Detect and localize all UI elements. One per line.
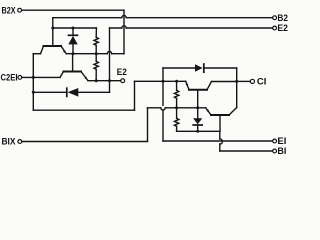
diode D4 cathode lead (197, 125, 199, 131)
diode D2 cathode bar (69, 34, 78, 36)
diode D4 anode lead (197, 108, 199, 118)
svg-text:B2: B2 (277, 13, 288, 23)
node junction resistor R2 on emitter rail (95, 79, 98, 82)
diode D4 triangle (193, 118, 202, 124)
resistor R3 zigzag (174, 90, 178, 98)
resistor R2 top lead (95, 54, 97, 62)
transistor Q4 emitter leg (206, 108, 211, 115)
wire hop of B1 riser over E1 wire (220, 139, 223, 144)
wire B2X vertical drop to base line (123, 10, 125, 54)
wire C1 riser down (236, 68, 238, 108)
svg-text:C2EI: C2EI (1, 73, 18, 83)
diode D3 FWD cathode lead (204, 67, 237, 69)
node junction base line B (51, 27, 54, 30)
diode D3 FWD triangle (195, 64, 203, 72)
wire hop of B1X line under E1 riser (161, 108, 165, 110)
diode D1 FWD anode lead (78, 91, 109, 93)
transistor Q2 emitter leg (81, 72, 88, 81)
node junction E1 rail and FWD riser (162, 80, 165, 83)
terminal C1 (250, 79, 254, 83)
wire B2 line A (53, 17, 273, 19)
transistor Q3 base bar (189, 89, 207, 91)
terminal B1X (18, 140, 22, 144)
node junction diode D2 anode on B2X line (72, 52, 75, 55)
wire hop of E2 line over B2X vertical (122, 26, 126, 28)
wire FWD anode riser (162, 68, 164, 141)
resistor R1 top lead (95, 28, 97, 37)
terminal E2 mid (121, 79, 125, 83)
svg-text:B2X: B2X (2, 5, 16, 15)
resistor R4 top lead (176, 108, 178, 119)
resistor R4 zigzag (174, 118, 178, 126)
wire B1 horizontal (220, 150, 273, 152)
wire B1 riser down with hop over E1 wire (219, 131, 221, 151)
transistor Q3 collector leg (207, 82, 212, 90)
transistor Q4 base bar (211, 114, 229, 116)
diode D4 cathode bar (193, 124, 202, 126)
wire B1 line (177, 130, 220, 132)
transistor Q3 emitter arrow (186, 82, 188, 85)
wire E1 horizontal (163, 140, 273, 142)
wire C2E1 riser vertical (32, 54, 34, 110)
resistor R2 zigzag (94, 61, 98, 69)
resistor R1 bottom lead (95, 45, 97, 53)
transistor Q1 collector leg (41, 46, 44, 54)
wire B1X line (148, 107, 206, 109)
svg-text:BI: BI (277, 146, 286, 156)
transistor Q3 base lead down (197, 90, 199, 108)
transistor Q2 emitter arrow (85, 77, 88, 80)
node junction C2E1 on riser (32, 76, 35, 79)
wire C1 horizontal (237, 80, 251, 82)
svg-text:BIX: BIX (2, 137, 16, 147)
diode D1 FWD triangle (68, 88, 79, 97)
wire base line B2X left run (66, 53, 124, 55)
wire emitter rail E1 top (135, 80, 186, 82)
terminal B2X (18, 8, 22, 12)
svg-text:E2: E2 (277, 23, 288, 33)
terminal B2 (273, 16, 277, 20)
wire B2X horizontal (22, 9, 124, 11)
wire E2 line right segment (110, 27, 273, 29)
svg-text:E2: E2 (117, 67, 127, 77)
transistor Q1 emitter arrow (63, 50, 66, 53)
wire hop of B2 line over B2X vertical (122, 16, 126, 18)
wire bottom link C2E1 to right group (33, 109, 134, 111)
wire Q3 collector to C1 riser (212, 81, 237, 83)
diode D1 FWD cathode bar (66, 88, 68, 96)
node junction E1 rail and resistor chain (175, 80, 178, 83)
node junction diode D2 on line B (72, 27, 75, 30)
wire E2 aux line B segment (53, 27, 97, 29)
node junction FWD cathode on riser (32, 91, 35, 94)
node junction D4 cathode on B1 line (196, 130, 199, 133)
svg-text:CI: CI (257, 77, 267, 87)
transistor Q1 emitter leg (61, 46, 66, 54)
node junction resistor tap on B2X line (95, 52, 98, 55)
transistor Q2 collector leg (60, 72, 64, 78)
wire B1X riser down (147, 108, 149, 142)
terminal C2E1 (18, 76, 22, 80)
wire B1X horizontal (22, 141, 148, 143)
resistor R3 bottom lead (176, 98, 178, 108)
transistor Q2 base bar (64, 71, 82, 73)
transistor Q4 collector leg (229, 108, 237, 116)
terminal E2 aux (273, 26, 277, 30)
node junction B1X line resistor tap (175, 106, 178, 109)
transistor Q1 base lead vertical (52, 18, 54, 46)
transistor Q2 base lead (72, 54, 74, 71)
transistor Q1 base bar (44, 45, 62, 47)
resistor R3 top lead (176, 81, 178, 90)
node junction C1 (235, 80, 238, 83)
wire FWD line top (163, 67, 195, 69)
wire C2E1 horizontal (22, 76, 60, 78)
diode D2 anode lead (72, 44, 74, 53)
diode D1 FWD cathode lead (33, 91, 67, 93)
node junction Q3 base on B1X line (196, 106, 199, 109)
terminal B1 (273, 149, 277, 153)
terminal E1 (273, 139, 277, 143)
diode D3 FWD cathode bar (203, 64, 205, 72)
transistor Q3 emitter leg (186, 81, 189, 89)
svg-text:EI: EI (277, 136, 286, 146)
transistor Q4 emitter arrow (206, 109, 209, 112)
wire Q1 collector to C2E1 riser (33, 53, 40, 55)
node junction E2 riser on emitter rail (108, 79, 111, 82)
resistor R2 bottom lead (95, 69, 97, 80)
diode D2 triangle (68, 36, 77, 45)
diode D2 cathode lead (72, 28, 74, 35)
resistor R4 bottom lead (176, 126, 178, 131)
transistor Q4 base lead down (219, 115, 221, 131)
wire right group riser up (134, 81, 136, 110)
resistor R1 zigzag (94, 37, 98, 45)
wire E2 riser vertical (109, 28, 111, 92)
wire emitter rail E2 (88, 80, 121, 82)
wire hop of B2X line over E2 riser (107, 52, 111, 54)
